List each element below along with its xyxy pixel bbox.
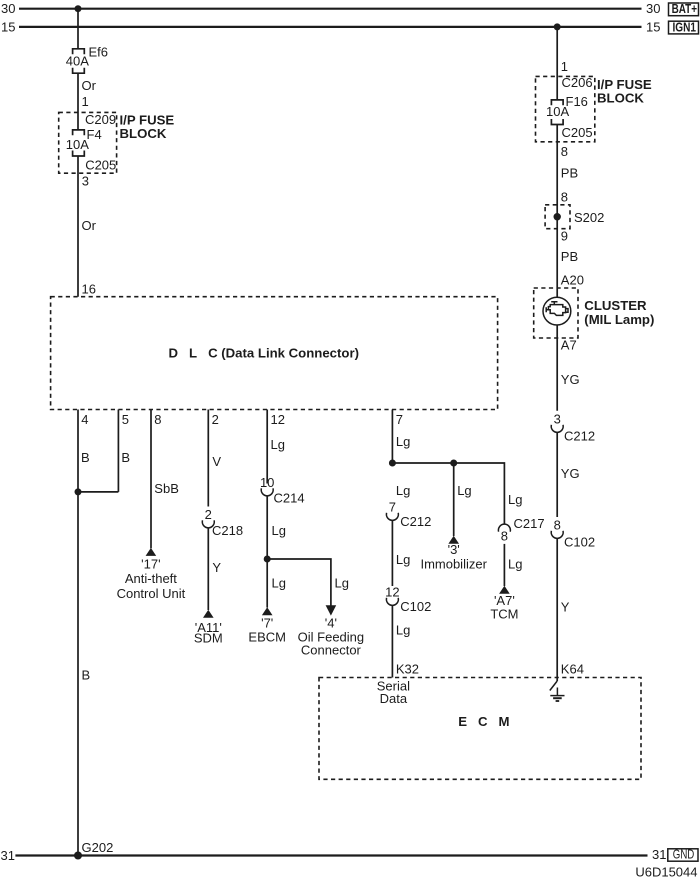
wire: C217 to TCM — [503, 544, 505, 586]
triangle terminal 'A11' — [203, 610, 214, 618]
svg-text:'4': '4' — [325, 616, 337, 631]
svg-text:Or: Or — [82, 218, 97, 233]
wire: to EBCM — [266, 559, 268, 608]
wire: bus line 30 — [19, 8, 642, 10]
svg-text:PB: PB — [561, 165, 578, 180]
svg-text:B: B — [82, 668, 91, 683]
DLC pin 5 stub — [117, 410, 119, 492]
svg-text:10A: 10A — [546, 104, 569, 119]
label Serial Data — [377, 679, 410, 707]
svg-text:7: 7 — [396, 412, 403, 427]
svg-text:16: 16 — [82, 281, 96, 296]
svg-text:8: 8 — [561, 144, 568, 159]
svg-text:C218: C218 — [212, 523, 243, 538]
svg-text:8: 8 — [554, 518, 561, 533]
connector C214 pin 10 — [260, 475, 305, 506]
svg-text:10: 10 — [260, 475, 274, 490]
svg-text:Immobilizer: Immobilizer — [420, 556, 487, 571]
svg-text:Lg: Lg — [272, 576, 286, 591]
triangle terminal '3' immobilizer — [448, 536, 459, 544]
svg-text:BAT+: BAT+ — [672, 1, 698, 16]
svg-text:PB: PB — [561, 249, 578, 264]
svg-text:3: 3 — [82, 174, 89, 189]
junction dot serial data branch — [389, 460, 396, 467]
wire: to immobilizer — [453, 463, 455, 536]
wire: C218 to SDM — [207, 528, 209, 611]
label '4' Oil Feeding Connector — [298, 616, 364, 658]
svg-text:1: 1 — [82, 94, 89, 109]
wire: S202 to cluster — [556, 217, 558, 298]
svg-text:2: 2 — [205, 507, 212, 522]
svg-text:12: 12 — [385, 585, 399, 600]
ground symbol inside ECM — [550, 681, 565, 701]
svg-text:30: 30 — [1, 1, 15, 16]
svg-text:S202: S202 — [574, 210, 604, 225]
svg-text:C102: C102 — [564, 535, 595, 550]
wire: C214 down — [266, 496, 268, 560]
svg-text:C214: C214 — [274, 491, 305, 506]
svg-text:Lg: Lg — [508, 557, 522, 572]
I/P FUSE BLOCK (left) dashed box — [59, 112, 117, 173]
I/P FUSE BLOCK (right) dashed box — [536, 76, 595, 141]
wire: pin5 joins pin4 — [78, 491, 118, 493]
DLC pin 7 stub — [391, 410, 393, 464]
title I/P FUSE BLOCK (left) — [120, 112, 175, 141]
connector C102 pin 8 (right) — [551, 518, 595, 550]
wire: bus15 to right fuse block — [556, 27, 558, 100]
svg-text:Lg: Lg — [272, 523, 286, 538]
svg-text:15: 15 — [646, 19, 660, 34]
svg-text:Control Unit: Control Unit — [117, 586, 186, 601]
wire: bus line 31 — [15, 854, 647, 856]
net box BAT+ — [669, 1, 699, 16]
svg-text:GND: GND — [673, 846, 695, 861]
svg-text:A7: A7 — [561, 338, 577, 353]
svg-text:Lg: Lg — [396, 434, 410, 449]
connector C212 pin 3 (right) — [551, 412, 595, 444]
svg-text:15: 15 — [1, 19, 15, 34]
net box GND — [668, 846, 698, 861]
junction dot pins 4/5 — [75, 488, 82, 495]
label '3' Immobilizer — [420, 542, 487, 571]
svg-text:B: B — [81, 450, 90, 465]
svg-text:K64: K64 — [561, 662, 584, 677]
svg-text:'3': '3' — [448, 542, 460, 557]
connector C212 pin 7 — [386, 500, 431, 530]
svg-text:9: 9 — [561, 229, 568, 244]
fuse Ef6 40A — [66, 44, 108, 73]
svg-text:Lg: Lg — [335, 576, 349, 591]
svg-text:C205: C205 — [562, 125, 593, 140]
net box IGN1 — [669, 19, 699, 34]
label '7' EBCM — [248, 616, 286, 645]
triangle terminal 'A7' TCM — [499, 586, 510, 594]
svg-text:'17': '17' — [141, 556, 160, 571]
svg-text:8: 8 — [501, 529, 508, 544]
wire: F4 to DLC pin 16 — [77, 156, 79, 297]
svg-text:TCM: TCM — [490, 606, 518, 621]
svg-text:Ef6: Ef6 — [89, 44, 109, 59]
svg-text:BLOCK: BLOCK — [120, 126, 167, 141]
svg-text:U6D15044: U6D15044 — [635, 865, 697, 880]
wire: C212 down — [391, 520, 393, 586]
wire: C212 to C102 — [556, 432, 558, 517]
wire: bus30 to fuse Ef6 — [77, 9, 79, 49]
svg-text:4: 4 — [81, 412, 88, 427]
svg-text:12: 12 — [271, 412, 285, 427]
svg-text:EBCM: EBCM — [248, 630, 286, 645]
triangle terminal '17' — [146, 548, 157, 556]
svg-text:C212: C212 — [400, 514, 431, 529]
triangle terminal '7' EBCM — [262, 607, 273, 615]
junction dot S202 — [554, 213, 561, 220]
wire: C102 to ECM K64 — [556, 538, 558, 681]
connector C218 pin 2 — [202, 507, 243, 538]
svg-text:30: 30 — [646, 1, 660, 16]
svg-text:5: 5 — [122, 412, 129, 427]
svg-text:G202: G202 — [82, 840, 114, 855]
svg-text:(MIL Lamp): (MIL Lamp) — [584, 312, 654, 327]
wire: F16 to S202 — [556, 125, 558, 217]
svg-text:31: 31 — [652, 847, 666, 862]
MIL lamp circle — [543, 297, 571, 325]
svg-text:Connector: Connector — [301, 643, 362, 658]
wire: bus line 15 — [19, 26, 642, 28]
svg-text:Lg: Lg — [508, 492, 522, 507]
arrow terminal '4' oil feeding — [326, 605, 337, 615]
svg-text:3: 3 — [554, 412, 561, 427]
svg-text:SbB: SbB — [154, 481, 179, 496]
svg-text:IGN1: IGN1 — [673, 19, 697, 34]
svg-text:Lg: Lg — [396, 483, 410, 498]
svg-text:Lg: Lg — [457, 483, 471, 498]
svg-text:C206: C206 — [562, 75, 593, 90]
title I/P FUSE BLOCK (right) — [597, 77, 652, 106]
fuse F4 10A — [66, 127, 102, 156]
svg-text:Lg: Lg — [271, 437, 285, 452]
svg-text:Y: Y — [561, 600, 570, 615]
junction on bus 30 (left branch) — [75, 5, 82, 12]
DLC pin 2 stub — [207, 410, 209, 507]
svg-text:CLUSTER: CLUSTER — [584, 298, 647, 313]
svg-text:40A: 40A — [66, 54, 89, 69]
CLUSTER (MIL Lamp) dashed box — [534, 288, 578, 338]
wire: branch to TCM — [392, 463, 504, 525]
wire: cluster to C212 — [556, 325, 558, 411]
title CLUSTER (MIL Lamp) — [584, 298, 654, 327]
svg-text:7: 7 — [389, 500, 396, 515]
svg-text:C102: C102 — [400, 599, 431, 614]
svg-text:SDM: SDM — [194, 631, 223, 646]
label 'A11' SDM — [194, 620, 223, 646]
svg-text:C209: C209 — [85, 112, 116, 127]
wire: branch to oil feeding connector — [267, 559, 331, 606]
junction on bus 15 (right branch) — [554, 23, 561, 30]
svg-text:BLOCK: BLOCK — [597, 91, 644, 106]
svg-text:Lg: Lg — [396, 623, 410, 638]
fuse F16 10A — [546, 94, 588, 125]
svg-text:10A: 10A — [66, 137, 89, 152]
svg-text:Data: Data — [380, 691, 408, 706]
svg-text:8: 8 — [561, 190, 568, 205]
svg-text:Lg: Lg — [396, 552, 410, 567]
junction dot immobilizer branch — [450, 460, 457, 467]
svg-text:C205: C205 — [85, 158, 116, 173]
splice S202 dashed box — [545, 205, 570, 229]
wire: fuse Ef6 to I/P fuse block — [77, 73, 79, 130]
svg-text:'7': '7' — [261, 616, 273, 631]
engine icon (MIL) — [546, 302, 568, 316]
svg-text:Anti-theft: Anti-theft — [125, 571, 177, 586]
DLC pin 12 stub — [266, 410, 268, 484]
svg-text:D L C (Data Link Connector: D L C (Data Link Connector) — [169, 346, 360, 361]
svg-text:B: B — [121, 450, 130, 465]
svg-text:YG: YG — [561, 372, 580, 387]
svg-text:Or: Or — [82, 78, 97, 93]
svg-text:C212: C212 — [564, 429, 595, 444]
DLC box (Data Link Connector) — [51, 297, 498, 410]
label 'A7' TCM — [490, 593, 518, 621]
svg-text:YG: YG — [561, 466, 580, 481]
svg-text:A20: A20 — [561, 272, 584, 287]
DLC pin 4 stub — [77, 410, 79, 492]
junction dot EBCM/Oil branch — [264, 556, 271, 563]
wire: C102 to ECM K32 — [391, 605, 393, 678]
svg-text:K32: K32 — [396, 662, 419, 677]
label '17' Anti-theft Control Unit — [117, 556, 186, 601]
ECM dashed box — [319, 678, 641, 780]
wire: to ground G202 — [77, 492, 79, 856]
ground G202 junction — [74, 852, 82, 860]
svg-text:31: 31 — [1, 848, 15, 863]
connector C102 pin 12 — [385, 585, 431, 615]
svg-text:1: 1 — [561, 59, 568, 74]
svg-text:2: 2 — [212, 412, 219, 427]
svg-text:E C M: E C M — [458, 714, 509, 729]
svg-text:Y: Y — [212, 560, 221, 575]
connector C217 pin 8 — [498, 516, 544, 544]
svg-text:V: V — [212, 454, 221, 469]
DLC pin 8 stub — [150, 410, 152, 549]
svg-text:C217: C217 — [514, 516, 545, 531]
svg-text:8: 8 — [154, 412, 161, 427]
